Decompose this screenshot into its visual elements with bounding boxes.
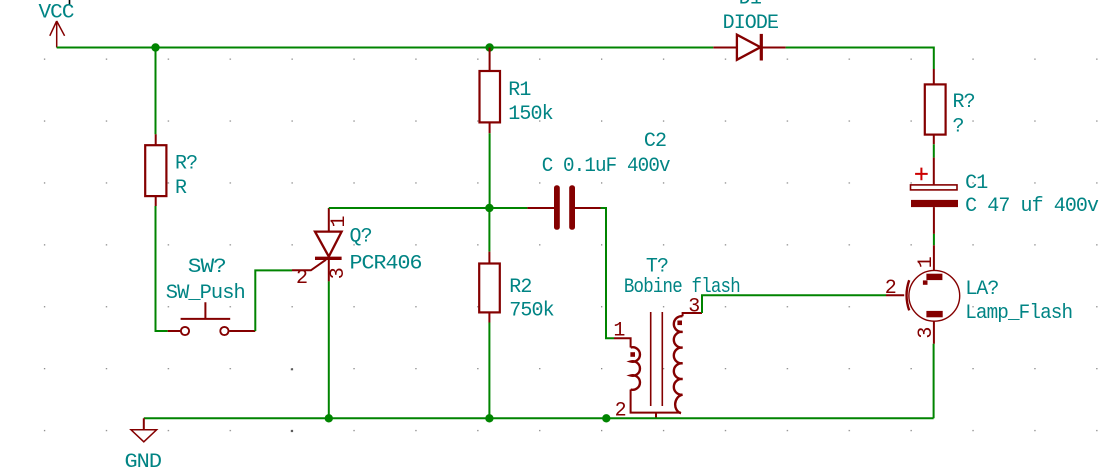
T? pin 3 lead xyxy=(683,313,702,316)
wire R2 to bottom rail xyxy=(488,323,490,419)
svg-text:DIODE: DIODE xyxy=(723,12,779,35)
T? pin 2 stub xyxy=(655,413,657,419)
T? pin 1 lead xyxy=(614,338,631,347)
wire R? down to switch pin xyxy=(156,206,168,331)
svg-text:1: 1 xyxy=(328,216,351,228)
svg-text:R2: R2 xyxy=(509,276,531,299)
wire Q? anode to R1/R2/C2 node xyxy=(329,207,490,209)
LA? bottom electrode xyxy=(926,311,942,317)
svg-text:SW_Push: SW_Push xyxy=(166,282,245,305)
svg-text:D1: D1 xyxy=(739,0,762,11)
wire top rail from VCC to diode D1 anode xyxy=(57,47,714,49)
D1 anode pin xyxy=(713,47,737,49)
power flag VCC xyxy=(39,2,75,48)
svg-text:C2: C2 xyxy=(644,130,666,153)
capacitor C2 0.1uF 400v xyxy=(527,130,670,230)
transformer T? Bobine flash xyxy=(613,255,740,422)
capacitor C1 47uF 400v polarized xyxy=(911,158,1099,234)
switch SW? SW_Push xyxy=(166,256,256,335)
svg-text:C 0.1uF 400v: C 0.1uF 400v xyxy=(542,155,671,178)
svg-text:VCC: VCC xyxy=(39,2,75,25)
resistor R? (left) xyxy=(145,134,197,206)
stray black tick top edge xyxy=(69,0,71,5)
C2 left plate xyxy=(554,185,560,230)
wire switch to Q? gate xyxy=(255,270,292,331)
junction bottom rail / transformer branch xyxy=(602,414,610,422)
LA? top electrode xyxy=(926,274,942,280)
wire top rail from diode D1 cathode to right corner down to R? xyxy=(786,48,934,70)
LA? envelope circle xyxy=(909,270,960,321)
T? core lines xyxy=(651,312,663,406)
T? primary polarity dot xyxy=(630,352,635,357)
junction node R1/R2/C2/Q? xyxy=(485,204,493,212)
svg-text:T?: T? xyxy=(646,255,668,278)
svg-text:1: 1 xyxy=(613,320,625,343)
junction top rail / R1 branch xyxy=(485,43,493,51)
wire Q? cathode to bottom rail xyxy=(328,281,330,418)
svg-text:Lamp_Flash: Lamp_Flash xyxy=(965,302,1072,325)
resistor R2 750k xyxy=(479,252,554,323)
C1 negative plate xyxy=(911,200,958,207)
T? secondary winding arcs xyxy=(674,316,683,413)
R2 pins xyxy=(488,252,490,323)
svg-text:GND: GND xyxy=(125,451,162,474)
darker grid dot A xyxy=(291,368,293,370)
R1 pins xyxy=(489,48,491,134)
svg-text:R?: R? xyxy=(953,91,975,114)
flash lamp LA? Lamp_Flash xyxy=(885,245,1072,343)
svg-text:1: 1 xyxy=(915,256,938,268)
C1 top pin xyxy=(933,158,935,185)
svg-text:C1: C1 xyxy=(965,172,988,195)
LA? pin 3 lead xyxy=(933,321,935,344)
C1 positive plate xyxy=(911,185,958,190)
R2 body xyxy=(479,264,500,313)
VCC arrow symbol xyxy=(50,21,65,48)
svg-text:?: ? xyxy=(953,115,964,138)
Q? cathode pin xyxy=(328,258,330,281)
wire R? to C1 xyxy=(933,144,935,157)
SW? right contact circle xyxy=(220,327,228,335)
darker grid dot B xyxy=(291,430,293,432)
LA? pin 1 lead xyxy=(933,245,935,270)
thyristor Q? PCR406 xyxy=(292,208,422,290)
svg-text:750k: 750k xyxy=(509,300,554,323)
svg-text:SW?: SW? xyxy=(188,256,226,279)
svg-text:R?: R? xyxy=(175,153,197,176)
wire node to C2 xyxy=(489,207,527,209)
C2 left pin xyxy=(527,207,554,209)
SW? left pin xyxy=(168,330,181,332)
right R? body xyxy=(925,84,946,134)
ground GND xyxy=(125,418,162,474)
SW? right pin xyxy=(229,330,255,332)
svg-text:C 47 uf 400v: C 47 uf 400v xyxy=(965,195,1099,218)
svg-text:3: 3 xyxy=(915,327,938,338)
svg-text:2: 2 xyxy=(885,277,896,300)
junction bottom rail / Q? cathode xyxy=(325,414,333,422)
svg-text:3: 3 xyxy=(327,268,350,279)
T? primary bottom lead and bottom bar xyxy=(631,390,681,413)
Q? anode pin xyxy=(328,208,330,232)
T? secondary polarity dot xyxy=(677,321,682,326)
C2 right plate xyxy=(569,185,575,230)
svg-text:R: R xyxy=(175,177,187,200)
C2 right pin xyxy=(575,207,601,209)
R1 body xyxy=(480,71,501,122)
wire C1 to lamp pin 1 xyxy=(933,234,935,245)
wire transformer pin 3 to lamp trigger xyxy=(702,295,886,313)
wire R1 to node xyxy=(489,133,491,208)
svg-text:Q?: Q? xyxy=(350,225,372,248)
wire lamp pin 3 to bottom rail xyxy=(933,344,935,419)
Q? cathode bar xyxy=(315,257,342,260)
GND triangle xyxy=(131,430,157,442)
C1 bottom pin xyxy=(933,207,935,234)
LA? polarity dot xyxy=(923,280,928,284)
svg-text:R1: R1 xyxy=(508,79,531,102)
LA? trigger pin 2 lead xyxy=(886,294,904,296)
Q? triangle xyxy=(315,232,342,257)
svg-text:LA?: LA? xyxy=(965,278,998,301)
wire bottom rail xyxy=(144,417,934,419)
junction bottom rail / R2 xyxy=(485,414,493,422)
junction top rail / R? branch xyxy=(151,43,159,51)
resistor R? (right) xyxy=(925,69,975,144)
diode D1 xyxy=(713,0,785,61)
svg-text:150k: 150k xyxy=(508,103,553,126)
wire top rail down to R? xyxy=(155,48,157,135)
D1 cathode bar xyxy=(760,34,763,61)
R? pins xyxy=(155,134,157,206)
svg-text:2: 2 xyxy=(296,267,307,290)
SW? left contact circle xyxy=(181,327,189,335)
GND stub xyxy=(143,418,145,430)
T? primary winding arcs xyxy=(631,347,640,390)
svg-text:PCR406: PCR406 xyxy=(350,253,422,276)
D1 cathode pin xyxy=(761,47,785,49)
Q? gate pin xyxy=(292,260,326,271)
D1 triangle xyxy=(737,35,761,60)
wire node down to R2 xyxy=(488,208,490,252)
right R? pins xyxy=(933,69,935,144)
LA? trigger electrode arc xyxy=(907,280,910,310)
R? body xyxy=(145,145,166,196)
SW? actuator bar xyxy=(181,302,231,319)
resistor R1 150k xyxy=(480,48,553,134)
C1 plus sign xyxy=(915,168,928,181)
wire C2 to transformer pin 1 xyxy=(601,208,615,338)
